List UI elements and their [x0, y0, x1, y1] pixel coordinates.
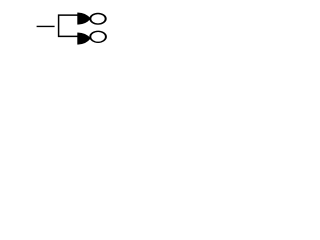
inverter U2 triangle: [78, 33, 90, 44]
wire branch to both inverters: [59, 15, 78, 36]
inverter U2 bubble: [90, 31, 106, 42]
inverter U1 triangle: [78, 13, 90, 24]
input wire: [37, 25, 55, 27]
inverter U1 bubble: [90, 13, 105, 24]
